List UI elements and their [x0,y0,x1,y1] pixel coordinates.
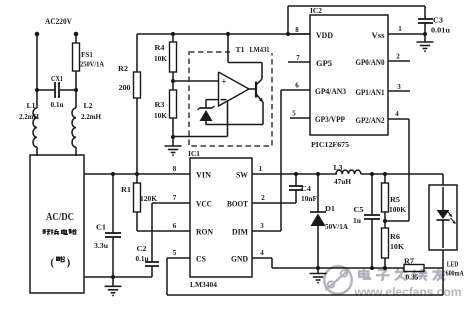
wire: op-amp ground stub [227,101,229,137]
svg-text:GP4/AN3: GP4/AN3 [315,87,346,96]
wire: VCC pin [152,202,190,204]
node: Vss / C3 junction [423,32,427,36]
svg-text:1: 1 [398,25,402,33]
svg-text:FS1: FS1 [81,50,93,59]
node: R4/R3 divider junction [171,79,175,83]
svg-text:RON: RON [196,228,213,237]
capacitor C1 [112,174,114,233]
wire: divider to PIC GP2/AN2 [385,220,409,222]
svg-text:250V/1A: 250V/1A [80,60,104,69]
LED load box [442,174,444,185]
svg-text:2: 2 [261,194,265,202]
node: D1 bottom on ground rail [316,266,320,270]
node: R5/R6 divider junction [383,219,387,223]
wire: LED bottom to sense rail [442,250,444,295]
svg-text:Vss: Vss [372,31,385,40]
svg-text:GP0/AN0: GP0/AN0 [356,58,385,67]
wire: R1 to RON pin [137,230,190,232]
wire: GP0/AN0 stub [388,60,410,62]
svg-text:VIN: VIN [196,171,211,180]
svg-text:600mA: 600mA [446,268,464,277]
wire: DIM pin from PIC GP4 [252,230,281,232]
svg-text:10K: 10K [154,54,167,63]
wire: GP5 stub [288,61,310,63]
svg-text:R6: R6 [390,232,400,241]
svg-text:6: 6 [173,222,177,230]
wire: T1 anode rail [206,124,263,126]
wire: VDD pin from top rail [288,33,310,35]
wire: bottom sense rail [167,294,443,296]
svg-text:R4: R4 [155,43,165,52]
svg-text:C3: C3 [433,16,443,25]
svg-text:LM3404: LM3404 [190,280,217,289]
ground under R3 [172,137,174,146]
svg-text:5: 5 [292,110,296,118]
AC/DC converter box [30,155,84,293]
op-amp inside T1 [219,72,250,106]
svg-text:AC220V: AC220V [45,17,72,26]
svg-text:CX1: CX1 [51,74,63,83]
AC/DC box label 转换电路 [43,229,46,231]
resistor R4 [172,34,174,42]
IC2 PIC12F675 box [310,15,388,135]
svg-text:SW: SW [236,171,248,180]
svg-text:C4: C4 [301,184,311,193]
node: R3 bottom / T1 anode junction [171,135,175,139]
wire: SW rail [252,173,337,175]
svg-text:47uH: 47uH [334,177,351,186]
resistor R6 [384,221,386,228]
transistor emitter arrow [256,94,263,102]
svg-text:3.3u: 3.3u [94,241,108,250]
svg-text:10nF: 10nF [301,194,317,203]
svg-text:3: 3 [260,222,264,230]
capacitor C5 [371,174,373,215]
node: CX1 right junction [74,88,78,92]
svg-text:GND: GND [231,255,248,264]
svg-text:7: 7 [296,54,300,62]
svg-text:(: ( [50,257,54,269]
AC input terminal right [74,32,79,37]
wire: output rail after L3 [361,173,443,175]
svg-text:10K: 10K [390,242,404,251]
LED symbol [437,210,450,219]
svg-text:1u: 1u [353,216,361,225]
svg-text:120K: 120K [140,194,157,203]
svg-text:0.01u: 0.01u [431,26,450,35]
node: R2 bottom on VIN rail [135,172,139,176]
capacitor C2 [151,203,153,262]
wire: left AC line down [36,34,38,108]
svg-text:L2: L2 [84,101,93,110]
svg-text:GP1/AN1: GP1/AN1 [356,88,385,97]
resistor R1 [136,174,138,183]
svg-text:4: 4 [260,249,264,257]
node: R5 top on output rail [383,172,387,176]
node: C5 bottom on ground rail [370,266,374,270]
wire: right AC line to L2 [75,90,77,108]
resistor R3 [172,81,174,90]
svg-text:7: 7 [173,194,177,202]
svg-text:L3: L3 [334,163,343,172]
node: R4 tap on top rail [171,32,175,36]
fuse FS1 [75,34,77,43]
wire: lower rail from AC/DC box [84,276,152,278]
svg-text:50V/1A: 50V/1A [325,222,349,231]
svg-text:R1: R1 [121,185,131,194]
node: D1 top on SW rail [316,172,320,176]
ground under D1 [317,268,319,274]
node: R6 bottom on ground rail [383,266,387,270]
svg-text:8: 8 [173,165,177,173]
svg-text:2.2mH: 2.2mH [19,112,39,121]
svg-text:+: + [221,78,226,88]
shunt regulator T1 LM431 dashed box [189,52,272,146]
svg-text:www.elecfans.com: www.elecfans.com [353,285,461,299]
svg-text:AC/DC: AC/DC [46,212,74,223]
svg-text:10K: 10K [154,111,167,120]
wire: divider to op-amp + input [173,80,219,82]
resistor R7 [404,265,424,272]
svg-text:T1: T1 [236,45,245,54]
watermark logo circle [324,266,352,294]
wire: GP1/AN1 stub [388,90,410,92]
wire: VIN rail from AC/DC box to IC1 [84,173,190,175]
resistor R2 [136,34,138,72]
node: C1 top on VIN rail [111,172,115,176]
wire: zener cathode to op-amp - input [206,99,219,101]
svg-text:0.1u: 0.1u [51,100,64,109]
svg-text:5: 5 [173,249,177,257]
node: CX1 left junction [35,88,39,92]
svg-text:LED: LED [447,260,459,269]
svg-text:IC2: IC2 [310,6,322,15]
diode D1 [317,174,319,212]
capacitor C4 [295,174,297,186]
resistor R5 [384,174,386,183]
AC input terminal left [35,32,40,37]
svg-text:GP3/VPP: GP3/VPP [315,115,345,124]
wire: VDD riser over IC2 [287,6,289,34]
wire: top supply rail [137,33,310,35]
svg-text:DIM: DIM [232,228,248,237]
LED arrows [447,211,452,216]
svg-text:100K: 100K [389,205,406,214]
node: VDD riser tap on top rail [286,32,290,36]
svg-text:): ) [67,257,71,269]
svg-text:200: 200 [119,83,131,92]
node: C4 top on SW rail [294,172,298,176]
svg-text:R2: R2 [118,64,128,73]
svg-text:GP5: GP5 [316,59,332,68]
svg-text:R7: R7 [404,257,414,266]
svg-text:4: 4 [395,110,399,118]
wire: Vss pin to C3 [388,33,425,35]
zener diode inside T1 [205,100,207,108]
svg-text:0.1u: 0.1u [136,254,149,263]
svg-text:PIC12F675: PIC12F675 [311,140,349,149]
svg-text:R5: R5 [390,195,400,204]
transistor inside T1 [255,82,257,98]
svg-text:2.2mH: 2.2mH [81,112,101,121]
inductor L3 [336,170,361,174]
svg-text:GP2/AN2: GP2/AN2 [356,116,385,125]
svg-text:VDD: VDD [316,31,333,40]
svg-text:3: 3 [397,83,401,91]
watermark text 电子发烧友 [359,271,368,277]
svg-text:6: 6 [295,82,299,90]
node: T1 cathode tap on top rail [226,32,230,36]
svg-text:C5: C5 [354,205,364,214]
svg-text:L1: L1 [27,101,36,110]
wire: CS pin down to bottom rail [167,257,190,259]
svg-text:C1: C1 [96,223,106,232]
ground under C1 [112,277,114,286]
node: C1 bottom junction [111,275,115,279]
svg-text:8: 8 [295,26,299,34]
inductor L2 [72,108,76,147]
node: C5 top on output rail [370,172,374,176]
wire: GP2/AN2 to divider [388,118,409,120]
svg-text:CS: CS [196,255,207,264]
IC1 LM3404 box [190,158,252,277]
svg-text:BOOT: BOOT [227,200,249,209]
svg-text:C2: C2 [137,244,147,253]
svg-text:2: 2 [396,53,400,61]
wire: BOOT pin to C4 [252,202,296,204]
wire: GP3/VPP stub [290,117,310,119]
wire: T1 anode return [173,136,228,138]
inductor L1 [33,108,37,147]
svg-text:D1: D1 [325,204,335,213]
ground under C3 [417,41,434,43]
svg-text:IC1: IC1 [188,149,200,158]
svg-text:1: 1 [259,165,263,173]
capacitor C3 [418,18,433,20]
svg-text:VCC: VCC [196,200,212,209]
wire: IC1 GND pin to ground rail [252,257,272,259]
capacitor CX1 [37,89,55,91]
svg-text:R3: R3 [155,100,165,109]
svg-text:LM431: LM431 [250,45,270,54]
